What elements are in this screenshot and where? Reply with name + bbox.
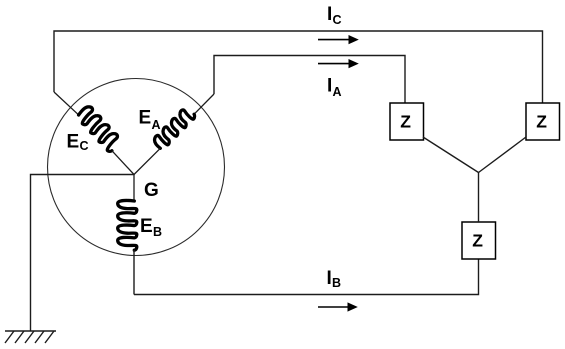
load Z phase B <box>462 222 496 259</box>
svg-text:B: B <box>153 225 162 239</box>
svg-text:Z: Z <box>536 112 547 132</box>
svg-text:I: I <box>327 4 332 25</box>
svg-text:C: C <box>333 13 342 27</box>
svg-text:G: G <box>144 180 159 201</box>
svg-text:A: A <box>333 85 342 99</box>
svg-text:C: C <box>80 139 89 153</box>
wire: winding A to node G <box>134 148 160 174</box>
svg-text:E: E <box>67 132 80 153</box>
wire: winding B down to bottom line <box>133 250 135 295</box>
winding EC <box>79 107 118 152</box>
svg-text:B: B <box>332 276 341 290</box>
arrow IA <box>318 59 359 68</box>
svg-text:E: E <box>140 216 153 237</box>
wire: winding C to node G <box>112 151 134 175</box>
wire: Z_C to star point <box>479 137 527 173</box>
svg-text:A: A <box>152 118 161 132</box>
svg-text:E: E <box>139 108 152 129</box>
wire: phase A line with corners <box>214 56 405 104</box>
svg-text:Z: Z <box>472 231 483 251</box>
svg-text:I: I <box>327 268 332 289</box>
svg-text:I: I <box>327 76 332 97</box>
wire: bottom line phase B <box>134 259 479 295</box>
svg-text:Z: Z <box>400 112 411 132</box>
wire: Z_A to star point <box>423 137 479 173</box>
wire: lead into winding A <box>194 94 214 114</box>
wire: lead into winding C <box>54 92 79 115</box>
wire: node G to winding B <box>133 175 135 202</box>
load Z phase C <box>526 103 560 140</box>
load Z phase A <box>390 103 424 140</box>
arrow IB <box>318 302 358 311</box>
generator circle G <box>48 79 225 256</box>
wire: neutral from node G to ground <box>31 175 135 332</box>
wire: star point down to Z_B <box>478 173 480 223</box>
arrow IC <box>318 35 359 44</box>
wire: phase C top line with corners <box>54 31 543 103</box>
ground <box>5 331 56 343</box>
winding EA <box>155 110 195 148</box>
winding EB <box>118 200 137 250</box>
